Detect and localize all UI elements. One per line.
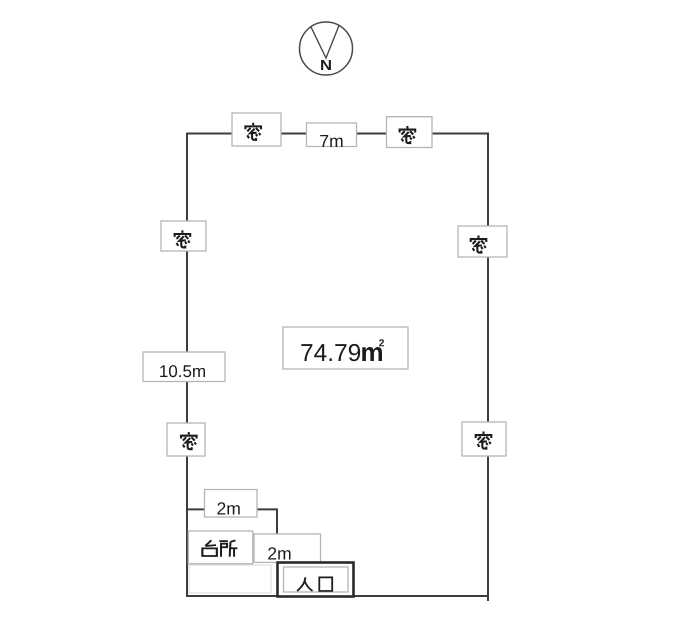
- wall left: [186, 133, 188, 598]
- dimension box 7m: [307, 123, 357, 147]
- wall right: [487, 133, 489, 602]
- entrance inner box: [284, 567, 349, 592]
- window box W6 (right lower): [462, 422, 506, 456]
- kitchen dim line vertical: [276, 508, 278, 562]
- window box W2 (top right): [387, 117, 433, 148]
- dimension box 2m (kitchen depth): [254, 534, 321, 562]
- window box W3 (left upper): [161, 221, 206, 251]
- area label box 74.79 m2: [283, 327, 408, 369]
- wall top: [187, 133, 488, 135]
- wall bottom: [187, 595, 488, 597]
- kitchen label box (daidokoro): [188, 531, 253, 564]
- window box W1 (top left): [232, 113, 281, 146]
- compass circle: [300, 22, 353, 75]
- entrance label (iriguchi): [297, 577, 312, 591]
- kitchen dim line horizontal: [187, 508, 276, 510]
- dimension box 10.5m: [143, 352, 225, 382]
- window box W4 (right upper): [458, 226, 507, 257]
- window box W5 (left lower): [167, 423, 205, 456]
- entrance outer box: [278, 563, 354, 597]
- dimension box 2m (kitchen width): [205, 490, 258, 518]
- compass needle V: [311, 26, 339, 59]
- faint empty box below kitchen label: [189, 565, 271, 593]
- compass label N: [321, 60, 331, 70]
